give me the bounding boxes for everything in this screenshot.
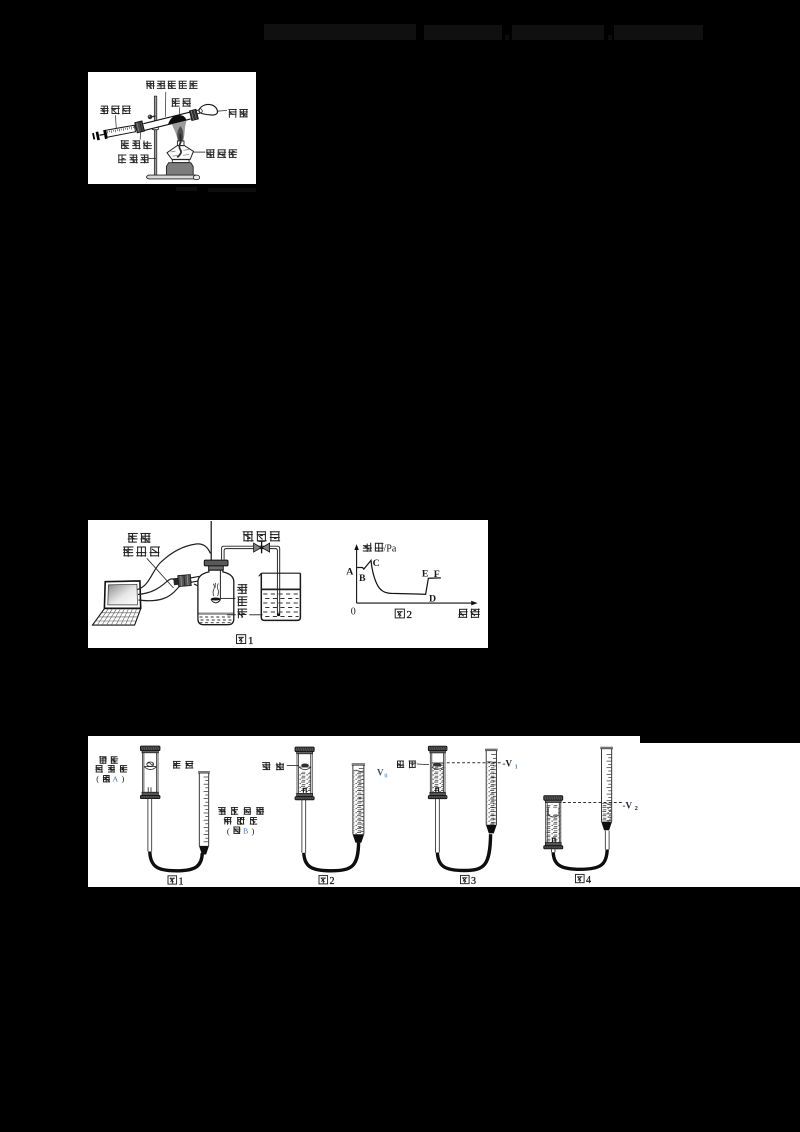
svg-text:1: 1: [179, 876, 184, 887]
leader line 白磷 fig2: [287, 764, 299, 766]
sensor wires: [138, 543, 211, 600]
leader line 硬质玻璃管: [164, 91, 166, 116]
label 白磷 fig2: [262, 762, 284, 770]
svg-text:/Pa: /Pa: [384, 543, 397, 554]
svg-text:3: 3: [471, 876, 476, 887]
svg-text:1: 1: [248, 634, 254, 646]
fig3 down tube: [436, 799, 440, 853]
fig4 phosphorus dome under water: [548, 807, 560, 817]
svg-text:(: (: [96, 774, 99, 784]
white figure box 3 (U-tube experiments, left part): [88, 736, 640, 887]
fig4 tube A glass walls: [546, 803, 561, 843]
alcohol lamp flame: [172, 120, 187, 141]
fig2 down tube: [302, 800, 306, 853]
svg-text:F: F: [434, 568, 440, 579]
beaker water surface: [261, 588, 300, 590]
title highlight box 1: [264, 24, 417, 40]
label 注射器: [100, 105, 131, 114]
fig1 inner delivery tube: [148, 787, 151, 792]
svg-text:0: 0: [384, 773, 387, 780]
label 压强/Pa: [363, 542, 384, 551]
label 图1: [168, 876, 177, 884]
fig1 tube A bottom stopper: [140, 792, 160, 798]
fig4 right down tube: [605, 831, 609, 850]
fig4 U-bend: [553, 850, 607, 870]
fig3 tube A glass walls: [430, 753, 445, 792]
white figure box 3 (right blank part): [640, 743, 800, 887]
title highlight box 3: [512, 25, 605, 40]
fig4 tube A top stopper: [544, 796, 563, 803]
fig1 tube B: [198, 772, 210, 846]
tube tip in beaker: [277, 613, 280, 616]
svg-text:2: 2: [635, 805, 638, 812]
fig2 U-bend: [304, 843, 359, 871]
svg-text:-V: -V: [623, 800, 633, 810]
balloon neck band: [189, 109, 198, 120]
title highlight box 4: [614, 25, 703, 40]
beaker water dashes: [263, 594, 298, 617]
dashed level line V2: [563, 802, 624, 804]
iron stand pole: [154, 96, 157, 175]
label 气球: [229, 109, 248, 118]
combustion spoon with red phosphorus: [211, 570, 221, 603]
fig2 tube A bottom stopper: [295, 793, 314, 799]
leader line 水 left: [227, 613, 236, 615]
svg-text:D: D: [429, 593, 436, 604]
svg-text:A: A: [113, 774, 119, 783]
water in bottle: [198, 613, 234, 623]
dashed level line V1: [447, 762, 503, 764]
beaker: [259, 573, 301, 620]
label 硬质玻璃管: [146, 80, 198, 89]
comma mark 1: [505, 35, 509, 40]
fig2 inner tube: [303, 788, 306, 793]
leader line 红磷: [221, 597, 236, 599]
lamp wick holder: [177, 141, 184, 146]
fig1 U-bend: [150, 852, 203, 871]
label 带刻度的玻璃管 (管B): [218, 807, 264, 836]
fig4 tube B liquid: [602, 804, 611, 822]
label 白磷 fig1: [173, 761, 193, 769]
fig1 down tube: [148, 799, 152, 852]
leader line 铜粉: [179, 107, 181, 119]
balloon 气球: [196, 104, 217, 115]
leader line 白磷 fig3: [417, 763, 429, 766]
fig4 liquid fills tube A: [546, 805, 560, 843]
laptop keys: [101, 611, 139, 613]
leader line 水 right: [249, 613, 262, 615]
fig3 tube B bottom connector: [486, 825, 497, 834]
clamp bracket: [152, 126, 158, 129]
label 酒精灯: [206, 149, 237, 158]
white figure box 2 (red phosphorus pressure experiment): [88, 520, 488, 649]
spring clamp 弹簧夹: [254, 541, 270, 553]
fig3 liquid surface + phosphorus remnant: [431, 763, 444, 769]
svg-text:-V: -V: [503, 759, 513, 769]
pressure curve: [357, 560, 441, 594]
pressure sensor plug: [173, 573, 200, 586]
label 时间: [458, 608, 480, 618]
faint caption box left below figure1: [176, 187, 197, 191]
fig4 inner tube: [552, 838, 555, 842]
clamp knob: [148, 114, 156, 119]
fig4 tube B: [600, 748, 613, 822]
syringe nozzle: [135, 125, 138, 128]
syringe plunger: [93, 130, 106, 140]
fig3 U-bend: [437, 834, 490, 870]
fig4 bottom stub: [551, 849, 555, 852]
title highlight box 2: [424, 25, 502, 40]
fig2 white phosphorus ball: [299, 764, 311, 770]
smoke squiggles: [213, 582, 218, 595]
connecting tube to beaker: [222, 546, 280, 615]
label 红磷 (vertical) and 水: [237, 584, 247, 618]
graph x-axis: [357, 600, 478, 605]
svg-text:V: V: [377, 767, 384, 777]
fig2 tube B liquid: [354, 771, 363, 834]
fig2 tube B bottom connector: [353, 834, 365, 843]
bottle body: [198, 570, 234, 625]
fig4 tube A bottom stopper: [544, 843, 563, 849]
svg-text:C: C: [373, 557, 380, 568]
svg-text:): ): [122, 774, 125, 784]
fig3 tube A top stopper: [428, 746, 447, 753]
svg-text:A: A: [346, 566, 353, 577]
svg-text:1: 1: [515, 763, 518, 770]
fig1 white phosphorus ball on holder: [144, 762, 157, 770]
fig3 tube B graduations: [491, 755, 496, 823]
label 压力传感器: [123, 533, 160, 557]
svg-text:): ): [252, 826, 255, 836]
fig3 tube A bottom stopper: [428, 792, 447, 798]
label 图2: [395, 609, 404, 618]
label 铁架台: [118, 154, 149, 163]
laptop computer: [93, 580, 141, 624]
leader line 橡胶塞: [139, 132, 141, 139]
graph y-axis: [354, 544, 359, 603]
bottle stopper: [204, 560, 228, 570]
sensor probe line: [194, 584, 208, 591]
label 图2: [319, 876, 328, 884]
svg-text:B: B: [243, 827, 248, 836]
leader line 铁架台: [148, 157, 156, 159]
label 白磷 fig3: [397, 761, 416, 769]
comma mark 2: [608, 35, 612, 40]
fig1 tube A top stopper: [140, 746, 160, 753]
fig2 tube A glass walls: [297, 754, 312, 794]
copper powder heap: [168, 114, 187, 124]
svg-text:4: 4: [586, 875, 591, 886]
alcohol lamp body: [167, 141, 193, 159]
label 硬质玻璃管 (管A): [95, 756, 127, 783]
syringe barrel: [106, 125, 136, 137]
iron stand base: [147, 175, 200, 180]
leader line 气球: [217, 109, 227, 112]
faint caption box right below figure1: [208, 188, 257, 192]
fig3 water in tube A: [431, 764, 444, 792]
fig4 tube B graduations: [607, 755, 612, 821]
fig2 tube B: [352, 764, 365, 834]
hard glass tube: [143, 111, 190, 130]
label 弹簧夹: [243, 531, 281, 542]
rubber stopper 橡胶塞: [135, 120, 145, 132]
leader line 酒精灯: [193, 151, 205, 153]
fig3 tube B: [485, 749, 498, 824]
svg-text:(: (: [227, 826, 230, 836]
label 图3: [461, 875, 470, 883]
fig2 tube A top stopper: [295, 747, 314, 754]
label 图4: [576, 874, 585, 882]
white figure box 1 (copper heating apparatus): [88, 72, 256, 185]
fig1 tube B graduations: [204, 777, 209, 842]
fig2 tube B graduations: [359, 769, 364, 832]
leader line 压力传感器: [147, 558, 174, 588]
fig1 tube B bottom connector: [199, 846, 209, 855]
fig2 water in tube A: [299, 772, 311, 792]
svg-text:2: 2: [330, 876, 335, 887]
fig1 tube A glass walls: [142, 753, 158, 792]
svg-text:0: 0: [351, 606, 356, 617]
syringe scale ticks: [107, 131, 109, 134]
svg-text:2: 2: [407, 609, 413, 621]
leader line 注射器: [114, 115, 117, 128]
svg-text:E: E: [422, 568, 429, 579]
fig3 tube B liquid: [487, 762, 496, 825]
label 橡胶塞: [121, 140, 152, 149]
label 铜粉: [172, 98, 191, 107]
lamp pedestal: [166, 162, 193, 174]
vertical probe line above bottle: [210, 521, 212, 560]
fig4 tube B bottom connector: [601, 822, 612, 831]
svg-text:B: B: [359, 572, 366, 583]
fig3 inner tube: [436, 788, 439, 792]
label 图1: [237, 634, 246, 643]
lamp base neck: [172, 159, 189, 162]
